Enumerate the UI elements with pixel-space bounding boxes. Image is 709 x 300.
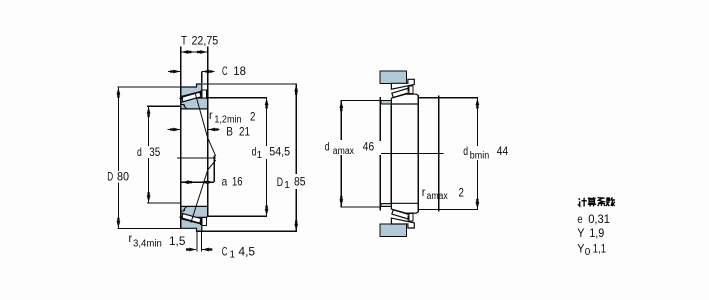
svg-text:18: 18 (233, 64, 246, 78)
svg-text:0,31: 0,31 (588, 212, 610, 226)
svg-text:r: r (422, 185, 426, 199)
svg-text:80: 80 (117, 170, 129, 184)
svg-text:1,9: 1,9 (589, 226, 604, 240)
svg-text:1: 1 (284, 180, 290, 191)
svg-text:amax: amax (427, 191, 448, 202)
svg-text:bmin: bmin (470, 151, 489, 162)
svg-text:r: r (209, 108, 213, 122)
svg-text:16: 16 (232, 174, 243, 188)
svg-text:d: d (325, 139, 330, 153)
svg-text:3,4min: 3,4min (133, 238, 162, 249)
svg-text:21: 21 (239, 125, 250, 139)
svg-text:0: 0 (585, 247, 591, 258)
svg-text:2: 2 (459, 186, 465, 200)
svg-text:C: C (222, 64, 228, 78)
svg-text:85: 85 (294, 175, 306, 189)
svg-text:44: 44 (497, 144, 509, 158)
svg-text:C: C (222, 244, 228, 258)
svg-text:Y: Y (577, 242, 584, 256)
svg-text:Y: Y (577, 226, 584, 240)
svg-text:T: T (181, 33, 188, 47)
svg-text:1,2min: 1,2min (214, 115, 241, 126)
svg-text:1,5: 1,5 (169, 234, 186, 248)
svg-text:35: 35 (149, 145, 160, 159)
svg-text:r: r (129, 231, 133, 245)
svg-text:4,5: 4,5 (238, 244, 255, 258)
svg-text:D: D (277, 175, 284, 189)
svg-text:2: 2 (250, 109, 256, 123)
svg-text:54,5: 54,5 (269, 145, 290, 159)
svg-text:d: d (463, 144, 468, 158)
svg-text:22,75: 22,75 (192, 33, 219, 47)
svg-text:1: 1 (230, 250, 236, 261)
svg-text:amax: amax (333, 146, 354, 157)
svg-text:1: 1 (257, 150, 263, 161)
svg-text:d: d (137, 145, 142, 159)
svg-text:e: e (577, 212, 582, 226)
svg-text:B: B (226, 125, 233, 139)
svg-text:D: D (107, 170, 113, 184)
svg-text:1,1: 1,1 (593, 242, 606, 256)
svg-text:46: 46 (363, 139, 375, 153)
svg-text:a: a (222, 174, 228, 188)
